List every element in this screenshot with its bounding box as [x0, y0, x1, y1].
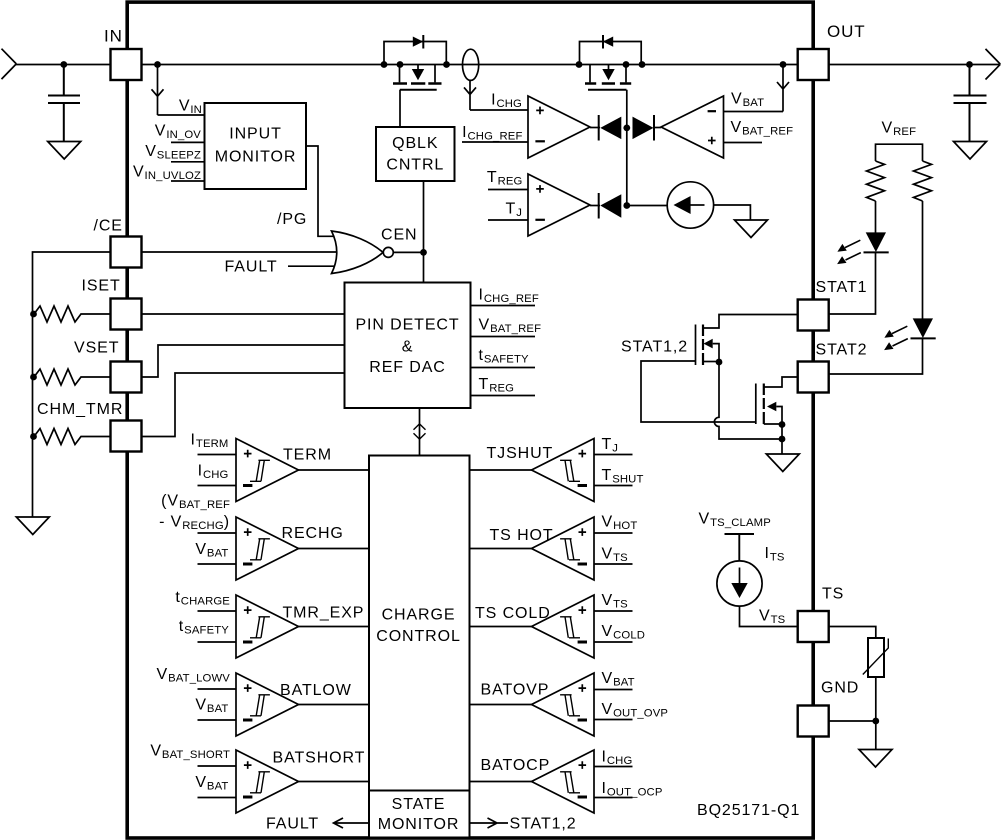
wire top rail — [142, 64, 798, 66]
svg-text:CONTROL: CONTROL — [376, 628, 461, 645]
svg-text:CHM_TMR: CHM_TMR — [37, 401, 123, 418]
wire VSET to PIN DETECT — [142, 345, 345, 377]
wire QBLK CNTRL to CEN node — [423, 181, 425, 283]
wire TREG dac output — [471, 395, 536, 397]
block CHARGE CONTROL — [369, 456, 470, 791]
wire TS COLD output — [470, 626, 532, 628]
diode Q2 body diode — [603, 35, 613, 49]
wire LED1 to STAT1 pin — [829, 252, 876, 314]
LED D1 STAT1 — [837, 232, 889, 264]
transistor Q2 body — [585, 65, 631, 90]
node diode OR bottom — [623, 202, 630, 209]
resistor R1 — [867, 161, 885, 201]
node diode OR top — [623, 124, 630, 131]
svg-text:VTS: VTS — [602, 592, 629, 611]
svg-text:BQ25171-Q1: BQ25171-Q1 — [697, 802, 800, 819]
ground I1 — [735, 220, 768, 238]
wire TREG into amp — [488, 189, 528, 191]
wire TS HOT output — [470, 548, 532, 550]
comparator TJSHUT — [532, 439, 595, 502]
node input cap junction — [60, 61, 67, 68]
wire VBAT batshort input — [198, 797, 237, 799]
wire R1 to LED1 — [875, 201, 877, 233]
svg-text:VTS: VTS — [602, 546, 629, 565]
wire RECHG output — [299, 548, 370, 550]
wire VBAT from OUT node into amp — [724, 111, 784, 113]
svg-text:STAT2: STAT2 — [816, 342, 868, 359]
svg-text:VREF: VREF — [882, 120, 917, 139]
wire D4 to VBAT amp — [654, 127, 661, 129]
block PIN DETECT and REF DAC — [345, 283, 471, 409]
wire RECHG plus input — [198, 532, 237, 534]
ground left rail — [16, 517, 49, 535]
svg-text:OUT: OUT — [827, 22, 866, 41]
wire STAT12 gate routing — [641, 361, 756, 422]
node CEN — [420, 249, 427, 256]
wire VBAT_REF dac output — [471, 336, 536, 338]
svg-text:TJSHUT: TJSHUT — [487, 445, 554, 462]
wire /PG from INPUT MONITOR to NOR gate — [306, 146, 335, 236]
transistor Q3 — [696, 315, 798, 366]
wire OUT to output terminal — [829, 64, 999, 66]
wire ITERM — [198, 454, 237, 456]
node Q1 source — [397, 61, 404, 68]
wire amp to diode D3 — [590, 127, 600, 129]
wire tSAFETY dac output — [471, 367, 536, 369]
svg-text:TS COLD: TS COLD — [475, 605, 551, 622]
input terminal arrow — [2, 49, 17, 79]
node Q1 bypass right — [443, 61, 450, 68]
wire bidirectional PIN DETECT to CHARGE CONTROL — [419, 408, 421, 456]
svg-text:VTS: VTS — [759, 608, 786, 627]
pin ISET — [111, 299, 142, 330]
wire FAULT to NOR gate — [288, 265, 337, 267]
svg-text:ICHG: ICHG — [491, 92, 522, 111]
svg-text:TSHUT: TSHUT — [602, 467, 644, 486]
current sense element on rail — [463, 49, 479, 80]
svg-text:ICHG_REF: ICHG_REF — [479, 287, 539, 306]
svg-text:IOUT_OCP: IOUT_OCP — [602, 780, 663, 799]
svg-text:VIN: VIN — [179, 98, 202, 117]
wire /CE to NOR gate — [142, 251, 339, 253]
ground input cap — [48, 142, 81, 160]
node Q3 source — [716, 359, 723, 366]
wire VOUT_OVP input — [594, 719, 633, 721]
wire tCHARGE — [198, 610, 237, 612]
wire /CE to left rail and rail down — [33, 252, 111, 517]
svg-text:tSAFETY: tSAFETY — [179, 618, 230, 637]
wire VIN_OV — [171, 141, 205, 143]
current source I1 — [667, 182, 713, 228]
comparator BATLOW — [236, 673, 299, 736]
svg-text:BATOVP: BATOVP — [481, 682, 550, 699]
wire VREF bracket — [876, 144, 923, 161]
svg-text:STAT1,2: STAT1,2 — [510, 816, 577, 833]
svg-text:FAULT: FAULT — [266, 816, 319, 833]
node CHM_TMR rail — [30, 433, 37, 440]
wire CHM_TMR to PIN DETECT — [142, 373, 345, 437]
svg-text:STAT1,2: STAT1,2 — [621, 339, 688, 356]
svg-text:TJ: TJ — [506, 201, 523, 220]
capacitor COUT — [954, 65, 987, 142]
svg-text:TERM: TERM — [283, 447, 332, 464]
svg-text:TREG: TREG — [487, 169, 523, 188]
pin STAT1 — [798, 300, 829, 331]
wire thermistor to GND node — [875, 677, 877, 750]
svg-text:BATSHORT: BATSHORT — [273, 750, 366, 767]
node Q2 body — [623, 61, 630, 68]
chip outline BQ25171-Q1 — [127, 2, 813, 838]
wire BATLOW plus input — [198, 688, 237, 690]
node Q1 bypass left — [381, 61, 388, 68]
diode D5 — [599, 193, 622, 219]
wire VHOT input — [594, 532, 633, 534]
wire ICHG sense with arrow — [464, 80, 528, 110]
pin VSET — [111, 362, 142, 393]
transistor Q4 — [756, 377, 798, 425]
svg-text:VIN_UVLOZ: VIN_UVLOZ — [133, 164, 201, 183]
pin /CE — [111, 237, 142, 268]
ground GND pin — [859, 750, 892, 768]
wire Q4 source to ground — [781, 425, 783, 455]
diode Q1 body diode — [413, 35, 424, 49]
svg-text:VSET: VSET — [74, 340, 119, 357]
wire TERM output — [299, 469, 370, 471]
wire VSLEEPZ — [171, 161, 205, 163]
wire amp to diode D5 — [590, 205, 600, 207]
wire BATLOW output — [299, 704, 370, 706]
wire TS pin to thermistor — [829, 627, 876, 639]
svg-text:ISET: ISET — [82, 278, 121, 295]
svg-text:MONITOR: MONITOR — [215, 149, 297, 166]
resistor RCHM — [34, 429, 111, 445]
svg-text:TREG: TREG — [479, 376, 515, 395]
wire TMR_EXP output — [299, 626, 370, 628]
wire BATSHORT plus input — [198, 765, 237, 767]
comparator BATOCP — [532, 750, 595, 813]
comparator RECHG — [236, 517, 299, 580]
wire Q2 gate down to diode node — [626, 90, 628, 206]
svg-text:VSLEEPZ: VSLEEPZ — [145, 143, 201, 162]
svg-text:VBAT: VBAT — [195, 774, 228, 793]
resistor RVSET — [34, 369, 111, 385]
wire BATSHORT output — [299, 781, 370, 783]
svg-text:VBAT: VBAT — [731, 91, 764, 110]
pin CHM_TMR — [111, 421, 142, 452]
transistor Q1 blocking FET bypass branch — [384, 42, 446, 65]
wire tSAFETY tmr input — [198, 641, 237, 643]
comparator BATSHORT — [236, 750, 299, 813]
comparator TERM — [236, 439, 299, 502]
wire ICHG_REF into amp — [462, 141, 528, 143]
svg-text:CEN: CEN — [381, 227, 417, 244]
node Q3 Q4 source join — [779, 436, 786, 443]
wire VIN_UVLOZ — [171, 180, 205, 182]
svg-text:QBLK: QBLK — [392, 135, 438, 152]
svg-text:TS: TS — [822, 586, 844, 603]
svg-text:VBAT: VBAT — [602, 670, 635, 689]
wire VBAT_REF into amp — [724, 142, 763, 144]
pin STAT2 — [798, 362, 829, 393]
wire TJ into amp — [488, 219, 528, 221]
wire ISET to PIN DETECT — [142, 313, 345, 315]
svg-text:tSAFETY: tSAFETY — [479, 347, 530, 366]
svg-text:VOUT_OVP: VOUT_OVP — [602, 701, 669, 720]
wire R2 down to LED2 — [922, 201, 924, 319]
op-amp ICHG loop — [528, 96, 590, 158]
svg-text:STAT1: STAT1 — [816, 279, 868, 296]
wire VCOLD input — [594, 641, 633, 643]
wire TSHUT input — [594, 485, 633, 487]
wire FAULT from STATE MONITOR with arrow — [334, 818, 370, 828]
node VBAT sense junction — [780, 61, 787, 68]
node ISET rail — [30, 311, 37, 318]
node VSET rail — [30, 374, 37, 381]
wire IOUT_OCP input — [594, 797, 633, 799]
op-amp VBAT loop — [661, 96, 724, 158]
svg-text:STATE: STATE — [392, 796, 446, 813]
svg-text:GND: GND — [821, 680, 859, 697]
svg-text:MONITOR: MONITOR — [378, 816, 460, 833]
comparator BATOVP — [532, 673, 595, 736]
pin TS — [798, 611, 829, 642]
block STATE MONITOR — [369, 791, 470, 838]
svg-text:&: & — [402, 339, 414, 356]
wire ITS to TS pin — [740, 606, 798, 626]
resistor RISET — [34, 306, 111, 322]
diode D3 — [599, 115, 622, 141]
wire GND pin to node — [829, 720, 876, 722]
gate NOR — [332, 231, 394, 274]
svg-text:ITS: ITS — [765, 545, 785, 564]
wire Q3 source down with hop — [714, 362, 781, 439]
svg-text:RECHG: RECHG — [282, 525, 344, 542]
wire ICHG batocp input — [594, 766, 633, 768]
wire node to current source I1 — [627, 205, 668, 207]
svg-text:BATOCP: BATOCP — [481, 757, 551, 774]
svg-text:PIN DETECT: PIN DETECT — [355, 317, 459, 334]
wire VIN sense arrow down — [152, 65, 164, 116]
svg-text:VCOLD: VCOLD — [602, 623, 646, 642]
wire VBAT batovp input — [594, 689, 633, 691]
wire VTS tshot input — [594, 563, 633, 565]
svg-text:VHOT: VHOT — [602, 514, 638, 533]
svg-text:/PG: /PG — [277, 211, 307, 228]
capacitor CIN — [48, 65, 80, 142]
wire LED2 to STAT2 pin — [829, 338, 923, 374]
node Q2 bypass left — [576, 61, 583, 68]
svg-text:VBAT_REF: VBAT_REF — [731, 119, 794, 138]
transistor Q2 battery FET bypass branch — [580, 42, 642, 65]
wire Q1 gate to QBLK CNTRL — [399, 90, 401, 127]
wire VBAT batlow input — [198, 719, 237, 721]
svg-text:(VBAT_REF: (VBAT_REF — [161, 493, 230, 512]
svg-text:CHARGE: CHARGE — [382, 607, 456, 624]
svg-text:- VRECHG): - VRECHG) — [159, 514, 230, 533]
thermistor RT — [863, 638, 889, 677]
node VIN sense junction — [154, 61, 161, 68]
wire NOR output — [393, 251, 423, 253]
svg-text:TJ: TJ — [602, 436, 619, 455]
current source ITS — [717, 561, 762, 606]
node output cap junction — [966, 61, 973, 68]
svg-text:ICHG: ICHG — [198, 463, 229, 482]
wire ICHG term input — [198, 485, 237, 487]
svg-text:tCHARGE: tCHARGE — [175, 589, 230, 608]
svg-text:REF DAC: REF DAC — [369, 359, 446, 376]
pin IN — [111, 49, 142, 80]
wire ICHG_REF dac output — [471, 305, 536, 307]
ground Q3 Q4 — [766, 454, 799, 472]
svg-text:ITERM: ITERM — [191, 432, 229, 451]
comparator TS HOT — [532, 517, 595, 580]
wire BATOCP output — [470, 781, 532, 783]
svg-text:VBAT_REF: VBAT_REF — [479, 317, 542, 336]
wire VTS_CLAMP bar — [725, 534, 755, 561]
svg-text:IN: IN — [104, 27, 123, 46]
svg-text:TS HOT: TS HOT — [490, 527, 554, 544]
ground output cap — [954, 142, 987, 160]
wire VBAT sense arrow down — [777, 65, 789, 112]
svg-text:INPUT: INPUT — [229, 126, 282, 143]
node Q4 source — [779, 421, 786, 428]
wire BATOVP output — [470, 704, 532, 706]
wire STAT12 from STATE MONITOR with arrow — [470, 818, 509, 828]
wire VIN into INPUT MONITOR — [158, 114, 205, 116]
svg-text:FAULT: FAULT — [225, 259, 278, 276]
wire VBAT rechg input — [198, 563, 237, 565]
block INPUT MONITOR — [205, 103, 307, 189]
wire TJ tjshut input — [594, 454, 633, 456]
svg-text:BATLOW: BATLOW — [280, 682, 352, 699]
transistor Q1 body — [393, 65, 442, 90]
wire VTS tscold input — [594, 610, 633, 612]
LED D2 STAT2 — [884, 318, 936, 350]
pin OUT — [798, 49, 829, 80]
wire input to IN pin — [16, 64, 111, 66]
pin GND — [798, 706, 829, 737]
node Q2 bypass right — [639, 61, 646, 68]
svg-text:VIN_OV: VIN_OV — [155, 123, 202, 142]
svg-text:TMR_EXP: TMR_EXP — [283, 605, 365, 622]
svg-text:VBAT: VBAT — [195, 541, 228, 560]
op-amp TREG loop — [528, 174, 590, 236]
svg-text:ICHG_REF: ICHG_REF — [462, 124, 522, 143]
block QBLK CNTRL — [376, 127, 455, 181]
node GND junction — [872, 718, 879, 725]
svg-text:VTS_CLAMP: VTS_CLAMP — [699, 511, 771, 530]
diode D4 — [633, 115, 655, 141]
svg-text:ICHG: ICHG — [602, 749, 633, 768]
svg-text:CNTRL: CNTRL — [386, 157, 444, 174]
comparator TS COLD — [532, 595, 595, 658]
comparator TMR_EXP — [236, 595, 299, 658]
svg-text:VBAT: VBAT — [195, 697, 228, 716]
output terminal arrow — [986, 49, 1001, 80]
svg-text:VBAT_LOWV: VBAT_LOWV — [157, 666, 231, 685]
svg-text:/CE: /CE — [94, 218, 123, 235]
wire I1 to ground — [714, 205, 751, 220]
resistor R2 — [914, 161, 932, 201]
svg-text:VBAT_SHORT: VBAT_SHORT — [150, 743, 230, 762]
wire TJSHUT output — [470, 469, 532, 471]
